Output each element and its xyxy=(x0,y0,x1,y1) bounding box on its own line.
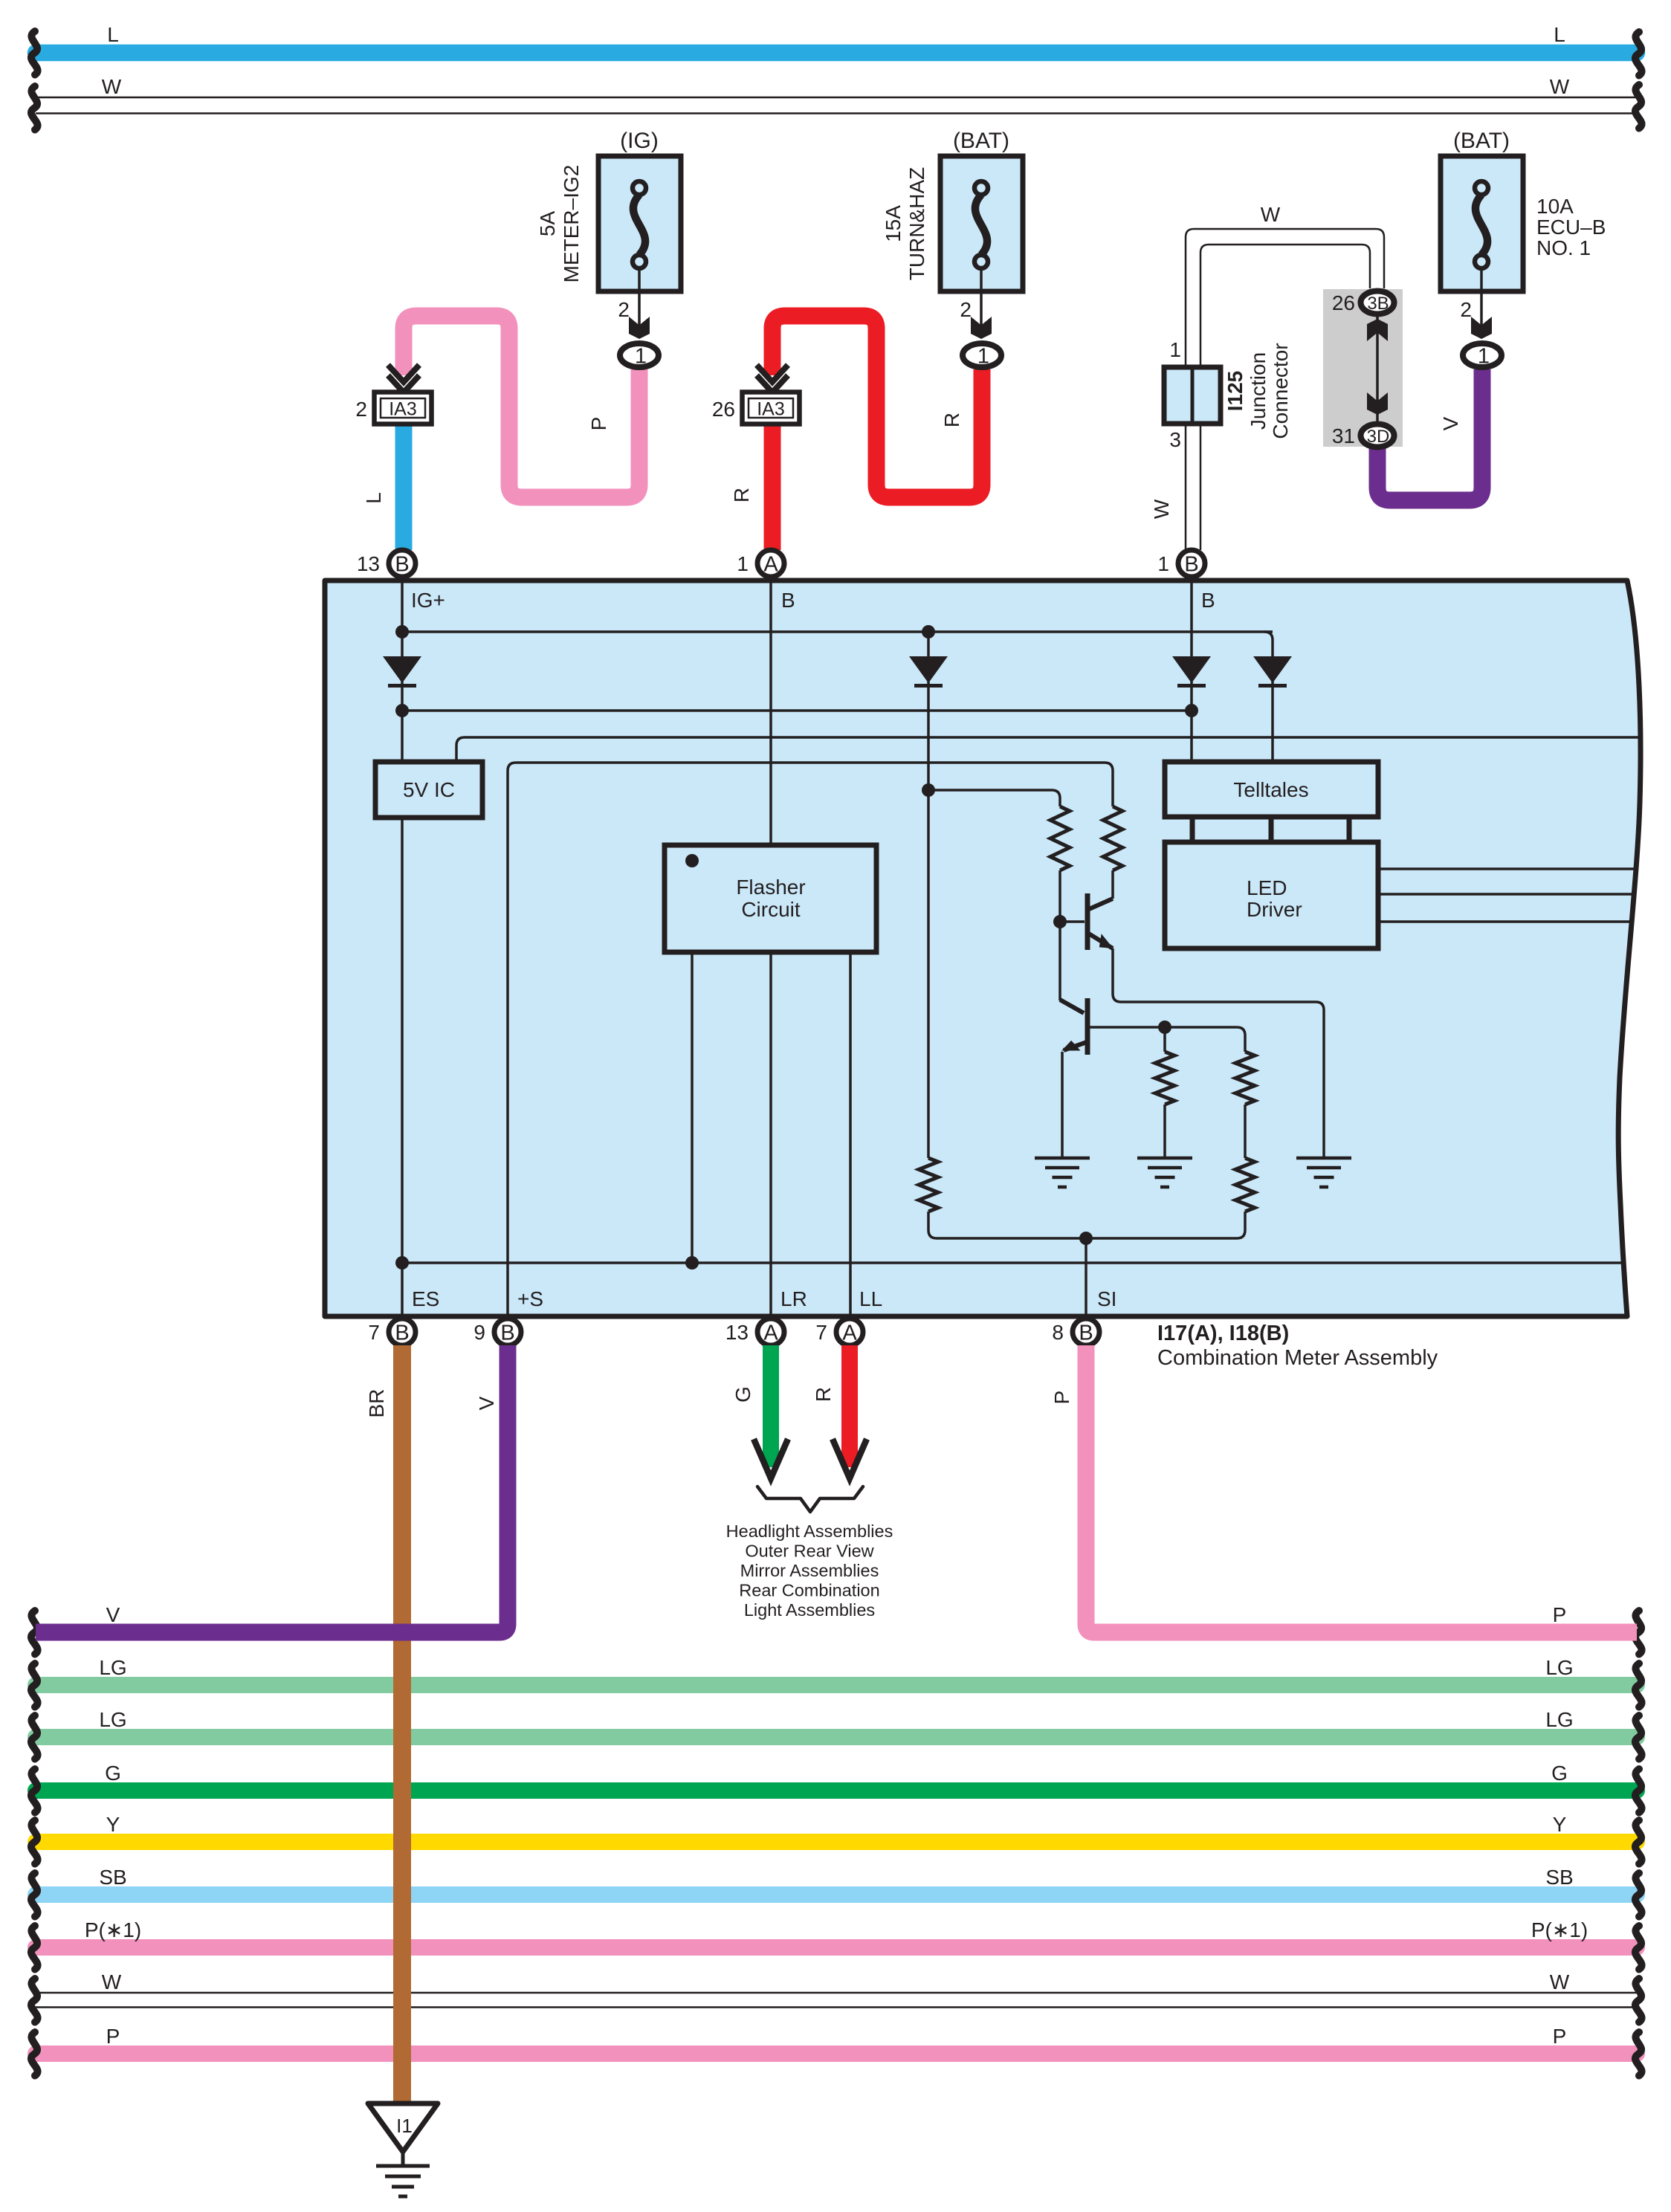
LED driver output lines xyxy=(1378,867,1635,870)
node B vertical (pin 1B) xyxy=(1190,581,1193,762)
connector oval 1 TURN&HAZ xyxy=(963,343,1001,367)
wire label P xyxy=(587,417,610,431)
svg-text:LG: LG xyxy=(99,1656,126,1679)
resistor R6 xyxy=(919,1158,938,1212)
svg-text:W: W xyxy=(1261,203,1281,226)
node Q2 base/R3 xyxy=(1158,1021,1171,1034)
break symbol L right xyxy=(1635,32,1642,76)
svg-text:P: P xyxy=(1050,1391,1073,1405)
svg-text:8: 8 xyxy=(1052,1321,1064,1344)
break LG 2 right xyxy=(1635,1715,1642,1759)
svg-text:P: P xyxy=(587,417,610,431)
fuse 15A TURN&HAZ xyxy=(940,156,1023,291)
svg-text:2: 2 xyxy=(355,398,367,421)
combination meter assembly box I17(A) I18(B) xyxy=(325,581,1641,1316)
break G left xyxy=(31,1769,38,1813)
wire purple V from ECU-B fuse to 3D xyxy=(1377,369,1482,500)
svg-text:LG: LG xyxy=(1545,1656,1573,1679)
svg-text:G: G xyxy=(1551,1762,1568,1785)
svg-text:W: W xyxy=(102,1970,122,1993)
block Flasher Circuit xyxy=(665,845,876,952)
wire red R xyxy=(841,1345,858,1467)
svg-text:G: G xyxy=(731,1386,754,1403)
connector IA3 pin 2 xyxy=(388,365,419,382)
svg-text:I1: I1 xyxy=(396,2115,413,2137)
svg-text:B: B xyxy=(1079,1322,1093,1345)
node SI vertical xyxy=(1085,1238,1087,1330)
svg-text:Rear Combination: Rear Combination xyxy=(739,1581,879,1600)
svg-text:Circuit: Circuit xyxy=(741,898,801,921)
svg-text:L: L xyxy=(362,492,385,504)
svg-text:9: 9 xyxy=(473,1321,485,1344)
wire R2 to Q1 collector xyxy=(1111,870,1114,899)
resistor R1 xyxy=(1050,806,1070,870)
connector block 3B/3D xyxy=(1323,289,1403,447)
node rail1/D2 xyxy=(922,625,935,638)
svg-text:Driver: Driver xyxy=(1247,898,1302,921)
arrow G xyxy=(754,1439,788,1478)
connector oval 1 ECU-B xyxy=(1463,343,1502,367)
diode D4 xyxy=(1253,656,1292,683)
svg-text:Flasher: Flasher xyxy=(736,876,805,899)
wire bus W (top) xyxy=(36,97,1639,99)
break Y right xyxy=(1635,1820,1642,1864)
wire Q1 emitter to ground xyxy=(1113,948,1324,1158)
svg-text:R: R xyxy=(940,413,963,427)
break SB left xyxy=(31,1873,38,1917)
svg-text:SI: SI xyxy=(1097,1287,1116,1310)
node Q1 base xyxy=(1053,915,1067,928)
svg-text:LED: LED xyxy=(1247,876,1287,899)
svg-text:2: 2 xyxy=(1460,298,1472,321)
flasher pin3 vertical LL xyxy=(849,952,852,1330)
fuse 10A ECU-B NO.1 xyxy=(1441,156,1523,291)
rail 2 xyxy=(402,709,1192,712)
wire bus L (top) xyxy=(36,45,1637,62)
svg-text:V: V xyxy=(106,1603,120,1626)
svg-text:A: A xyxy=(763,553,778,577)
break LG 1 left xyxy=(31,1663,38,1707)
resistor R2 xyxy=(1103,806,1122,870)
svg-text:IG+: IG+ xyxy=(411,589,445,612)
wire label P (SI) xyxy=(1050,1391,1073,1405)
svg-text:1: 1 xyxy=(977,345,989,369)
break W bottom left xyxy=(31,1979,38,2022)
wire label G xyxy=(731,1386,754,1403)
rail 4 +S xyxy=(508,763,1113,1330)
svg-text:2: 2 xyxy=(618,298,630,321)
transistor Q1 xyxy=(1085,893,1090,950)
svg-text:B: B xyxy=(1184,553,1198,577)
bottom sub rail xyxy=(928,1212,1245,1238)
connector oval 1 METER-IG2 xyxy=(620,343,659,367)
svg-text:LR: LR xyxy=(780,1287,807,1310)
wire green G xyxy=(763,1345,779,1467)
break V left xyxy=(31,1611,38,1655)
svg-text:31: 31 xyxy=(1332,424,1355,447)
svg-text:Telltales: Telltales xyxy=(1233,778,1308,801)
wire pink P from METER-IG2 fuse xyxy=(404,316,639,497)
svg-text:L: L xyxy=(107,23,119,46)
svg-text:METER–IG2: METER–IG2 xyxy=(560,165,583,283)
node IG+/rail1 xyxy=(395,625,409,638)
svg-text:W: W xyxy=(1550,75,1570,98)
rail ES xyxy=(402,1261,1623,1264)
wire label W (below I125) xyxy=(1150,499,1173,519)
svg-text:B: B xyxy=(1201,589,1215,612)
break SB right xyxy=(1635,1873,1642,1917)
svg-text:13: 13 xyxy=(725,1321,749,1344)
node B vertical (pin 1A) xyxy=(769,581,772,845)
wire label BR xyxy=(365,1389,388,1418)
wire label R xyxy=(812,1387,835,1402)
transistor Q2 xyxy=(1085,998,1090,1055)
flasher pin1 vertical xyxy=(691,952,694,1263)
wire label R (right) xyxy=(940,413,963,427)
svg-text:1: 1 xyxy=(1157,552,1169,575)
svg-text:Connector: Connector xyxy=(1269,343,1292,439)
svg-text:Y: Y xyxy=(1553,1813,1567,1836)
break Y left xyxy=(31,1820,38,1864)
arrow down to 3D xyxy=(1367,392,1388,415)
svg-text:B: B xyxy=(395,1322,409,1345)
svg-text:1: 1 xyxy=(737,552,749,575)
wire R4-R5 xyxy=(1244,1105,1247,1158)
wire bus LG 1 xyxy=(36,1677,1637,1693)
svg-text:P: P xyxy=(106,2025,120,2048)
svg-text:LG: LG xyxy=(99,1708,126,1731)
connector oval 3B xyxy=(1361,291,1394,314)
svg-text:3: 3 xyxy=(1169,428,1181,451)
svg-text:5V IC: 5V IC xyxy=(403,778,455,801)
svg-text:W: W xyxy=(102,75,122,98)
svg-text:V: V xyxy=(1439,416,1462,430)
break G right xyxy=(1635,1769,1642,1813)
wire Q2 emitter to ground xyxy=(1061,1052,1064,1158)
svg-text:1: 1 xyxy=(1169,338,1181,361)
wire brown BR xyxy=(393,1345,411,2103)
break W bottom right xyxy=(1635,1979,1642,2022)
pin 7 connector A xyxy=(836,1319,863,1345)
pin 9 connector B xyxy=(494,1319,521,1345)
svg-text:A: A xyxy=(763,1322,778,1345)
node D2 tap xyxy=(922,783,935,797)
svg-text:26: 26 xyxy=(712,398,735,421)
arrow R xyxy=(833,1439,867,1478)
svg-text:7: 7 xyxy=(815,1321,827,1344)
svg-text:2: 2 xyxy=(960,298,972,321)
node rail2/B xyxy=(1185,704,1198,717)
node rail2 xyxy=(395,704,409,717)
svg-text:ECU–B: ECU–B xyxy=(1536,216,1606,239)
svg-text:IA3: IA3 xyxy=(757,399,785,420)
flasher pin2 vertical LR xyxy=(769,952,772,1330)
pin 1 connector B xyxy=(1178,550,1205,577)
svg-text:I125: I125 xyxy=(1224,371,1247,412)
svg-text:B: B xyxy=(500,1322,514,1345)
wire red R from TURN&HAZ fuse xyxy=(772,316,982,497)
wire bus SB xyxy=(36,1886,1637,1903)
wire bus G xyxy=(36,1782,1637,1799)
ground (Q2 emitter) xyxy=(1035,1158,1090,1187)
wire label V (top right) xyxy=(1439,416,1462,430)
pin 8 connector B xyxy=(1073,1319,1099,1345)
break symbol W left xyxy=(31,86,38,130)
wire bus P(*1) xyxy=(36,1939,1637,1956)
svg-text:A: A xyxy=(842,1322,857,1345)
ground (R3) xyxy=(1137,1158,1192,1187)
connector oval 3D xyxy=(1361,424,1394,447)
wire blue L into pin 13B xyxy=(395,422,413,550)
wire bus Y xyxy=(36,1834,1637,1850)
pin 7 connector B xyxy=(389,1319,416,1345)
svg-text:(IG): (IG) xyxy=(620,129,659,153)
resistor R3 xyxy=(1163,1027,1166,1052)
svg-text:26: 26 xyxy=(1332,291,1355,314)
ground I1 xyxy=(368,2103,438,2152)
break P bottom left xyxy=(31,2032,38,2076)
svg-text:P(∗1): P(∗1) xyxy=(85,1918,141,1941)
connector IA3 pin 26 xyxy=(757,365,788,382)
svg-text:I17(A), I18(B): I17(A), I18(B) xyxy=(1157,1322,1289,1345)
underbrace headlight xyxy=(757,1487,863,1512)
wire R1 to Q1 base xyxy=(1058,870,1061,922)
svg-text:Y: Y xyxy=(106,1813,120,1836)
svg-text:B: B xyxy=(781,589,795,612)
svg-text:(BAT): (BAT) xyxy=(1453,129,1510,153)
wire bus W (bottom) xyxy=(36,1992,1639,1994)
pin 1 connector A xyxy=(757,550,784,577)
svg-text:P(∗1): P(∗1) xyxy=(1531,1918,1588,1941)
wire red R into pin 1A xyxy=(764,422,781,550)
node ES vertical xyxy=(401,818,404,1330)
svg-text:Junction: Junction xyxy=(1247,352,1270,430)
resistor R4 xyxy=(1235,1052,1255,1105)
svg-text:TURN&HAZ: TURN&HAZ xyxy=(905,167,928,280)
ground (Q1 emitter) xyxy=(1296,1158,1351,1187)
rail 1 xyxy=(402,630,1273,633)
svg-text:LG: LG xyxy=(1545,1708,1573,1731)
break LG 1 right xyxy=(1635,1663,1642,1707)
node SI xyxy=(1079,1232,1093,1245)
wire bus P bottom xyxy=(36,2046,1637,2062)
wire white W from I125 to 3B xyxy=(1186,229,1384,550)
wire purple V to bus xyxy=(36,1345,508,1632)
svg-text:Mirror Assemblies: Mirror Assemblies xyxy=(740,1561,879,1580)
svg-text:15A: 15A xyxy=(882,205,905,242)
wire Q2 base run xyxy=(1165,1027,1245,1052)
svg-text:R: R xyxy=(730,488,753,502)
rail 3 to right edge xyxy=(456,737,1638,762)
break P right xyxy=(1635,1611,1642,1655)
node IG+ vertical xyxy=(401,581,404,762)
junction connector I125 xyxy=(1164,367,1221,424)
svg-text:BR: BR xyxy=(365,1389,388,1418)
svg-text:Combination Meter Assembly: Combination Meter Assembly xyxy=(1157,1346,1438,1370)
svg-text:P: P xyxy=(1553,2025,1567,2048)
svg-text:3B: 3B xyxy=(1367,294,1389,314)
diode D4 drop xyxy=(1264,632,1273,762)
svg-text:ES: ES xyxy=(412,1287,439,1310)
wire Q1 base to Q2 collector xyxy=(1058,922,1061,1000)
break P(*1) left xyxy=(31,1926,38,1970)
svg-text:3D: 3D xyxy=(1367,427,1390,447)
block Telltales xyxy=(1165,762,1378,817)
fuse 5A METER-IG2 xyxy=(598,156,681,291)
resistor R5 xyxy=(1235,1158,1255,1212)
wire label R (left) xyxy=(730,488,753,502)
svg-text:(BAT): (BAT) xyxy=(953,129,1009,153)
telltales-LED links xyxy=(1190,817,1195,842)
svg-text:L: L xyxy=(1554,23,1565,46)
svg-text:1: 1 xyxy=(1478,345,1490,369)
pin 13 connector B xyxy=(389,550,416,577)
svg-text:Outer Rear View: Outer Rear View xyxy=(745,1542,874,1561)
break LG 2 left xyxy=(31,1715,38,1759)
svg-text:W: W xyxy=(1150,499,1173,519)
diode D3 xyxy=(1172,656,1211,683)
wire label V xyxy=(475,1396,498,1410)
svg-text:10A: 10A xyxy=(1536,195,1574,218)
svg-text:W: W xyxy=(1550,1970,1570,1993)
block LED Driver xyxy=(1165,842,1378,948)
svg-text:7: 7 xyxy=(368,1321,380,1344)
break symbol L left xyxy=(31,31,38,75)
break symbol W right xyxy=(1635,85,1642,129)
svg-text:SB: SB xyxy=(1545,1866,1573,1889)
node D2 column xyxy=(927,632,930,1158)
wire bus LG 2 xyxy=(36,1729,1637,1745)
diode D1 xyxy=(383,656,421,683)
pin 13 connector A xyxy=(757,1319,784,1345)
block 5V IC xyxy=(375,762,482,818)
svg-text:Light Assemblies: Light Assemblies xyxy=(744,1600,875,1620)
svg-text:B: B xyxy=(395,553,409,577)
node flasher/ES rail xyxy=(685,1256,699,1270)
wire label L xyxy=(362,492,385,504)
node flasher internal xyxy=(685,854,699,867)
svg-text:1: 1 xyxy=(635,345,647,369)
node ES rail xyxy=(395,1256,409,1270)
svg-text:NO. 1: NO. 1 xyxy=(1536,236,1591,259)
wire pink P to bus xyxy=(1086,1345,1637,1632)
svg-text:G: G xyxy=(105,1762,121,1785)
svg-text:+S: +S xyxy=(517,1287,543,1310)
svg-text:SB: SB xyxy=(99,1866,126,1889)
break P(*1) right xyxy=(1635,1926,1642,1970)
svg-text:5A: 5A xyxy=(536,211,559,237)
svg-text:13: 13 xyxy=(357,552,380,575)
arrow up to 3B xyxy=(1367,319,1388,341)
break P bottom right xyxy=(1635,2032,1642,2076)
svg-text:Headlight Assemblies: Headlight Assemblies xyxy=(726,1521,893,1541)
svg-text:P: P xyxy=(1553,1603,1567,1626)
svg-text:LL: LL xyxy=(859,1287,882,1310)
svg-text:R: R xyxy=(812,1387,835,1402)
wire dot line to R1 xyxy=(928,790,1060,806)
svg-text:V: V xyxy=(475,1396,498,1410)
diode D2 xyxy=(909,656,948,683)
svg-text:IA3: IA3 xyxy=(389,399,417,420)
